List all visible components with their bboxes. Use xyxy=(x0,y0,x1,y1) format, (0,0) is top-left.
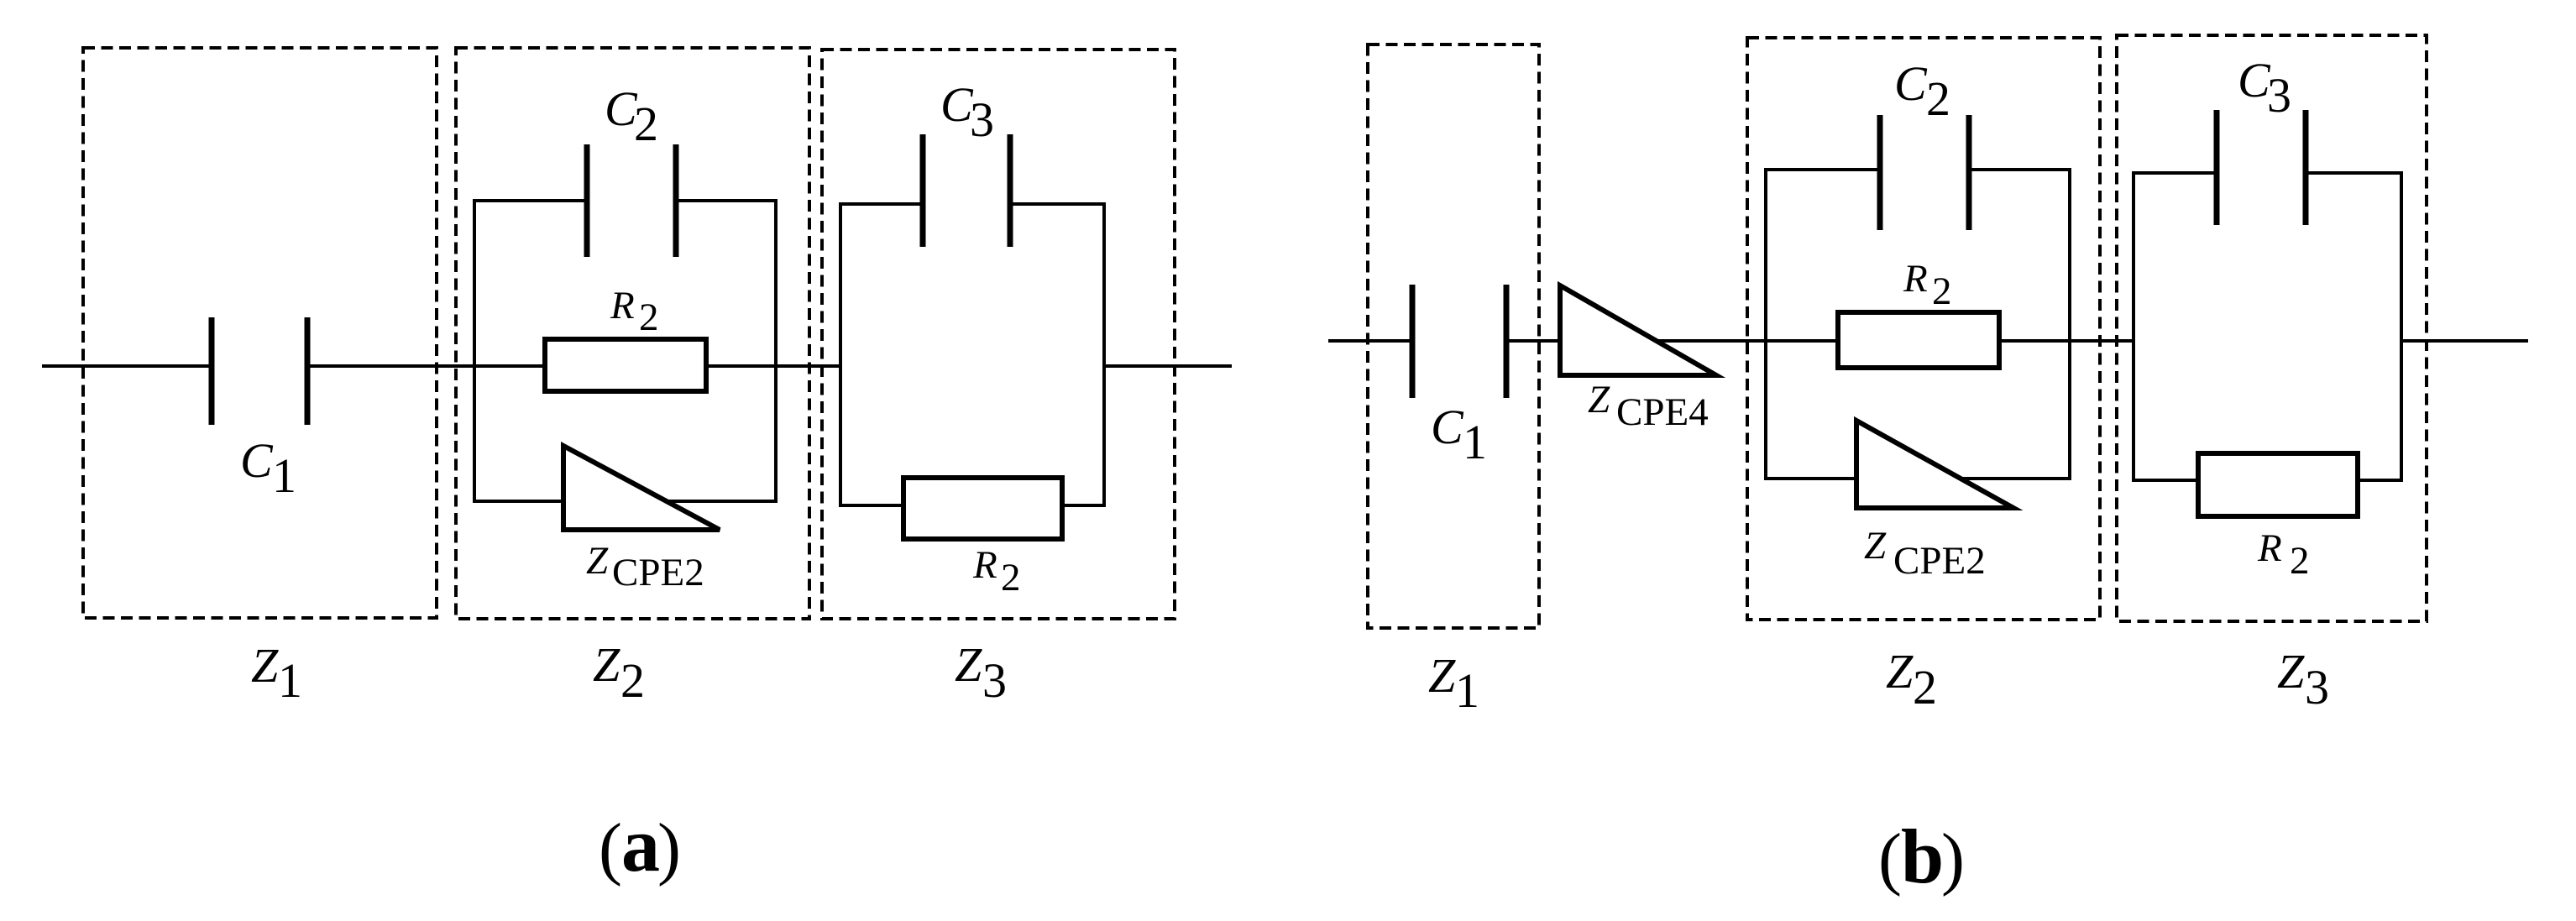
svg-text:2: 2 xyxy=(1926,71,1950,126)
svg-text:2: 2 xyxy=(620,653,645,708)
resistor R2 in Z2 (b) xyxy=(1838,312,1999,368)
label R2 of Z2 (b) xyxy=(1903,257,1952,313)
resistor R2 in Z2 (a) xyxy=(545,339,706,391)
svg-text:R: R xyxy=(2257,526,2282,570)
dashed box Z1 (b) xyxy=(1368,44,1539,628)
wire Z3 top branch right (a) xyxy=(1010,202,1106,206)
svg-text:2: 2 xyxy=(1932,269,1952,313)
caption (b) xyxy=(1878,814,1965,899)
svg-text:2: 2 xyxy=(1913,660,1937,714)
resistor R2 in Z3 (a) xyxy=(903,478,1062,539)
svg-text:(: ( xyxy=(599,809,622,887)
svg-text:1: 1 xyxy=(1455,663,1479,718)
wire Z2 top branch right (a) xyxy=(676,199,778,202)
capacitor C3 (b) plates xyxy=(2214,110,2220,225)
wire Z2 top branch left (a) xyxy=(473,199,587,202)
label Z1 (b) xyxy=(1428,648,1479,718)
svg-text:Z: Z xyxy=(1864,524,1887,568)
wire Z3 top branch left (a) xyxy=(839,202,923,206)
caption (a) xyxy=(599,802,681,887)
node Z3 inner-left junction bar (a) xyxy=(839,204,842,505)
svg-text:3: 3 xyxy=(970,92,994,147)
wire C1 through CPE4 and Z2 to Z3 inner-left (b) xyxy=(1506,339,2134,343)
node Z3 inner-left junction bar (b) xyxy=(2132,173,2135,480)
wire Z2 top branch left (b) xyxy=(1764,168,1880,171)
wire Z3 bottom branch (b) xyxy=(2132,479,2403,482)
CPE element Z_CPE2 triangle (a) xyxy=(563,446,720,530)
label R2 of Z2 (a) xyxy=(610,284,659,339)
svg-text:): ) xyxy=(1941,819,1965,897)
svg-text:3: 3 xyxy=(2305,660,2329,714)
svg-text:C: C xyxy=(1431,400,1464,454)
node Z2 inner-right junction bar (b) xyxy=(2068,170,2071,479)
node Z3 inner-right junction bar (a) xyxy=(1102,204,1106,505)
label Z_CPE2 (a) xyxy=(586,539,704,594)
label Z3 (b) xyxy=(2277,644,2329,714)
label C1 (a) xyxy=(240,433,296,503)
label C3 (a) xyxy=(940,77,994,147)
svg-text:R: R xyxy=(610,284,635,327)
capacitor C1 (a) plates xyxy=(209,317,215,425)
wire Z2 bottom branch (b) xyxy=(1764,477,2071,480)
label C1 (b) xyxy=(1431,400,1487,469)
svg-text:C: C xyxy=(1894,56,1928,111)
dashed box Z3 (a) xyxy=(822,50,1175,619)
wire main left segment (b) xyxy=(1328,339,1412,343)
wire Z2 bottom branch (a) xyxy=(473,500,778,503)
dashed box Z3 (b) xyxy=(2117,35,2427,621)
svg-text:C: C xyxy=(940,77,974,132)
svg-text:Z: Z xyxy=(2277,644,2305,699)
label Z2 (b) xyxy=(1886,644,1937,714)
svg-text:Z: Z xyxy=(593,637,620,692)
label C2 (a) xyxy=(605,81,658,151)
svg-text:Z: Z xyxy=(251,638,279,693)
wire main right segment (b) xyxy=(2401,339,2528,343)
wire main left segment (a) xyxy=(42,364,212,368)
wire Z2 top branch right (b) xyxy=(1969,168,2071,171)
label R2 of Z3 (a) xyxy=(972,543,1021,599)
svg-text:1: 1 xyxy=(1463,415,1487,469)
svg-text:C: C xyxy=(2238,53,2271,107)
svg-text:2: 2 xyxy=(634,97,658,151)
label Z1 (a) xyxy=(251,638,302,708)
svg-text:CPE2: CPE2 xyxy=(1893,539,1986,583)
svg-text:2: 2 xyxy=(639,296,659,339)
capacitor C3 (a) plates xyxy=(920,134,926,247)
svg-text:R: R xyxy=(972,543,997,587)
resistor R2 in Z3 (b) xyxy=(2198,453,2358,516)
svg-text:1: 1 xyxy=(272,448,296,503)
wire Z3 bottom branch (a) xyxy=(839,504,1106,507)
dashed box Z1 (a) xyxy=(83,48,437,618)
wire main right segment (a) xyxy=(1104,364,1232,368)
svg-text:b: b xyxy=(1901,814,1944,899)
svg-text:Z: Z xyxy=(1428,648,1456,703)
svg-text:Z: Z xyxy=(586,539,609,583)
CPE element Z_CPE2 triangle (b) xyxy=(1856,421,2013,508)
node Z3 inner-right junction bar (b) xyxy=(2400,173,2403,480)
wire C1 to Z3 inner-left through Z2 (a) xyxy=(307,364,840,368)
capacitor C2 (a) plates xyxy=(584,144,590,257)
svg-text:C: C xyxy=(605,81,638,136)
svg-text:2: 2 xyxy=(2290,539,2310,583)
svg-text:Z: Z xyxy=(955,637,982,692)
label C2 (b) xyxy=(1894,56,1950,126)
node Z2 inner-left junction bar (b) xyxy=(1764,170,1767,479)
svg-text:3: 3 xyxy=(2267,68,2291,123)
svg-text:): ) xyxy=(657,809,681,887)
capacitor C1 (b) plates xyxy=(1410,285,1416,398)
label Z_CPE2 (b) xyxy=(1864,524,1986,583)
label Z3 (a) xyxy=(955,637,1007,708)
wire Z3 top branch left (b) xyxy=(2132,171,2217,175)
capacitor C2 (b) plates xyxy=(1877,115,1883,230)
label R2 of Z3 (b) xyxy=(2257,526,2310,583)
svg-text:3: 3 xyxy=(982,653,1007,708)
node Z2 inner-left junction bar (a) xyxy=(473,201,476,501)
dashed box Z2 (b) xyxy=(1747,38,2100,620)
dashed box Z2 (a) xyxy=(456,48,809,619)
label C3 (b) xyxy=(2238,53,2291,123)
node Z2 inner-right junction bar (a) xyxy=(774,201,778,501)
svg-text:R: R xyxy=(1903,257,1928,301)
svg-text:C: C xyxy=(240,433,274,488)
svg-text:(: ( xyxy=(1878,819,1902,897)
svg-text:CPE4: CPE4 xyxy=(1616,390,1709,434)
svg-text:Z: Z xyxy=(1886,644,1914,699)
svg-text:Z: Z xyxy=(1588,378,1610,421)
svg-text:a: a xyxy=(621,802,660,887)
svg-text:1: 1 xyxy=(278,653,302,708)
label Z2 (a) xyxy=(593,637,645,708)
svg-text:CPE2: CPE2 xyxy=(612,551,704,594)
svg-text:2: 2 xyxy=(1001,556,1021,599)
CPE element Z_CPE4 triangle (b) xyxy=(1560,285,1716,375)
wire Z3 top branch right (b) xyxy=(2306,171,2403,175)
label Z_CPE4 (b) xyxy=(1588,378,1709,434)
